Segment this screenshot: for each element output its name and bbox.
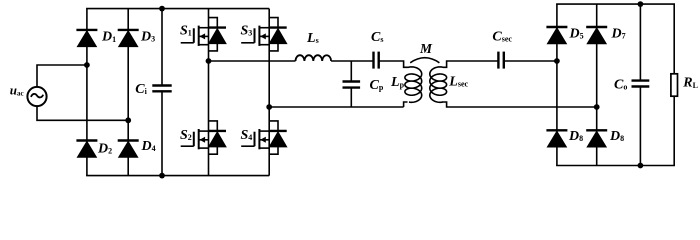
wire leg D3-D4 (127, 9, 129, 176)
svg-text:uac: uac (10, 82, 24, 97)
wire C_p branch (350, 61, 352, 82)
wire C_o branch top (639, 4, 641, 81)
wire L_p bottom lead (404, 102, 408, 107)
svg-text:D5: D5 (569, 26, 584, 41)
wire leg D1-D2 (86, 9, 88, 176)
wire left top rail (86, 8, 269, 10)
wire L_s to C_s (331, 60, 373, 62)
svg-text:Ls: Ls (306, 31, 319, 46)
node C_o top (638, 1, 644, 7)
capacitor C_p (343, 80, 361, 82)
node C_i top (159, 6, 165, 12)
svg-text:Lp: Lp (390, 75, 405, 90)
wire left bottom rail (86, 175, 269, 177)
wire C_sec to rectifier (504, 60, 557, 62)
capacitor C_s (372, 52, 374, 69)
svg-text:S4: S4 (241, 128, 253, 143)
wire leg S1-S2 (208, 9, 210, 176)
node ac-bottom junction (125, 117, 131, 123)
svg-text:Ci: Ci (135, 82, 147, 97)
mutual coupling M arc (410, 58, 439, 63)
diode D7 (586, 26, 607, 28)
svg-text:M: M (419, 41, 433, 56)
svg-text:Co: Co (614, 78, 627, 93)
wire L_sec top lead (443, 61, 498, 67)
wire inverter out bottom (269, 106, 403, 108)
wire C_i branch bottom (161, 91, 163, 175)
svg-text:RL: RL (682, 76, 698, 91)
svg-text:Csec: Csec (492, 29, 512, 44)
node rectifier in top (554, 58, 560, 64)
wire L_sec bottom lead (442, 102, 597, 107)
capacitor C_i (152, 84, 171, 86)
node C_i bottom (159, 173, 165, 179)
capacitor C_o (632, 79, 650, 81)
svg-text:D8: D8 (609, 129, 624, 144)
svg-text:Cs: Cs (371, 30, 383, 45)
wire ac top to bridge (37, 65, 87, 87)
svg-text:Cp: Cp (370, 78, 384, 93)
wire C_p bottom lead (350, 88, 352, 107)
svg-text:S2: S2 (180, 128, 192, 143)
diode D3 (118, 29, 139, 31)
wire leg D5-D6 (556, 4, 558, 165)
node S1-S2 junction (206, 58, 212, 64)
wire ac bottom to bridge (37, 106, 128, 120)
wire C_s to L_p (379, 61, 409, 67)
diode D1 (76, 29, 97, 31)
svg-text:D2: D2 (97, 141, 112, 156)
diode D8 (586, 129, 607, 131)
node C_o bottom (638, 163, 644, 169)
diode D5 (546, 26, 567, 28)
transistor S4 (241, 121, 287, 154)
transistor S1 (181, 18, 226, 51)
svg-text:D4: D4 (141, 139, 156, 154)
svg-text:D1: D1 (101, 30, 116, 45)
svg-text:D7: D7 (611, 26, 626, 41)
wire C_i branch top (161, 9, 163, 86)
diode D6 (546, 129, 567, 131)
node rectifier in bottom (594, 104, 600, 110)
wire R_L top lead (673, 4, 675, 74)
wire C_o branch bottom (639, 87, 641, 166)
transistor S3 (241, 18, 287, 51)
svg-text:D8: D8 (568, 129, 583, 144)
svg-text:D3: D3 (140, 29, 155, 44)
svg-text:S1: S1 (180, 24, 192, 39)
svg-text:Lsec: Lsec (448, 74, 468, 89)
ac source circle (27, 87, 46, 106)
wire R_L bottom lead (673, 96, 675, 165)
inductor L_p (primary coil) (405, 67, 422, 102)
wire leg S3-S4 (268, 9, 270, 176)
resistor R_L (671, 74, 678, 96)
diode D2 (76, 139, 97, 141)
capacitor C_sec (497, 52, 499, 69)
inductor L_sec (secondary coil) (430, 67, 447, 102)
wire leg D7-D8 (596, 4, 598, 165)
diode D4 (118, 139, 139, 141)
wire inverter out top (209, 60, 296, 62)
wire right top rail (556, 3, 675, 5)
transistor S2 (181, 121, 226, 154)
node ac-top junction (84, 62, 90, 68)
node S3-S4 junction (266, 104, 272, 110)
svg-text:S3: S3 (241, 24, 253, 39)
inductor L_s (296, 55, 332, 61)
wire right bottom rail (556, 165, 675, 167)
